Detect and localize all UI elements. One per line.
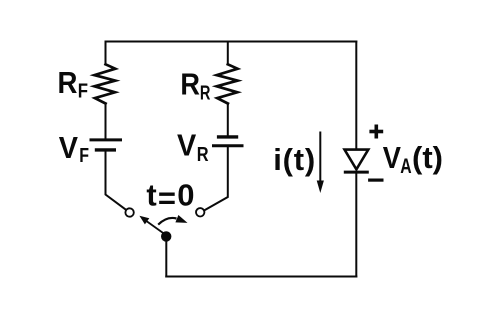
svg-text:t=0: t=0 xyxy=(146,178,195,216)
label VF xyxy=(59,131,89,166)
svg-text:V: V xyxy=(177,129,196,163)
svg-text:i(t): i(t) xyxy=(273,142,316,177)
wire top rail xyxy=(106,41,357,43)
switch blade arrow xyxy=(139,216,164,234)
battery VF plate short xyxy=(97,148,115,151)
battery VF plate long xyxy=(91,138,121,141)
wire VF to left switch contact xyxy=(106,151,127,210)
svg-text:(t): (t) xyxy=(412,140,443,175)
wire bottom rail xyxy=(166,276,356,278)
wire RR to VR xyxy=(227,104,229,137)
wire right branch lower xyxy=(355,173,357,277)
label plus polarity xyxy=(369,125,383,139)
resistor RR xyxy=(217,64,238,103)
wire VR to right switch contact xyxy=(204,147,228,211)
label RR xyxy=(180,68,210,104)
svg-text:V: V xyxy=(383,141,402,175)
wire left branch top lead xyxy=(105,42,107,65)
wire RF to VF xyxy=(105,104,107,140)
label RF xyxy=(58,65,88,101)
diode VA triangle xyxy=(345,150,369,170)
battery VR plate long xyxy=(214,144,243,147)
wire middle branch top lead xyxy=(227,42,229,65)
switch common node xyxy=(161,231,171,241)
battery VR plate short xyxy=(219,135,237,138)
svg-text:F: F xyxy=(79,144,89,166)
switch contact right xyxy=(196,208,204,216)
svg-text:V: V xyxy=(59,131,78,165)
svg-text:R: R xyxy=(197,143,209,166)
svg-text:F: F xyxy=(78,79,88,102)
svg-text:R: R xyxy=(200,81,211,104)
label VR xyxy=(177,129,209,166)
label VA(t) xyxy=(383,140,443,178)
wire switch node to bottom rail xyxy=(165,238,167,277)
svg-text:R: R xyxy=(180,68,200,102)
switch contact left xyxy=(125,208,133,216)
current arrow i(t) xyxy=(317,132,324,194)
diode VA cathode bar xyxy=(344,171,369,174)
svg-text:R: R xyxy=(58,65,78,100)
label minus polarity xyxy=(368,179,383,182)
resistor RF xyxy=(94,64,115,103)
svg-text:A: A xyxy=(400,154,411,178)
switch motion arrow xyxy=(158,215,187,225)
wire right branch upper xyxy=(355,42,357,150)
